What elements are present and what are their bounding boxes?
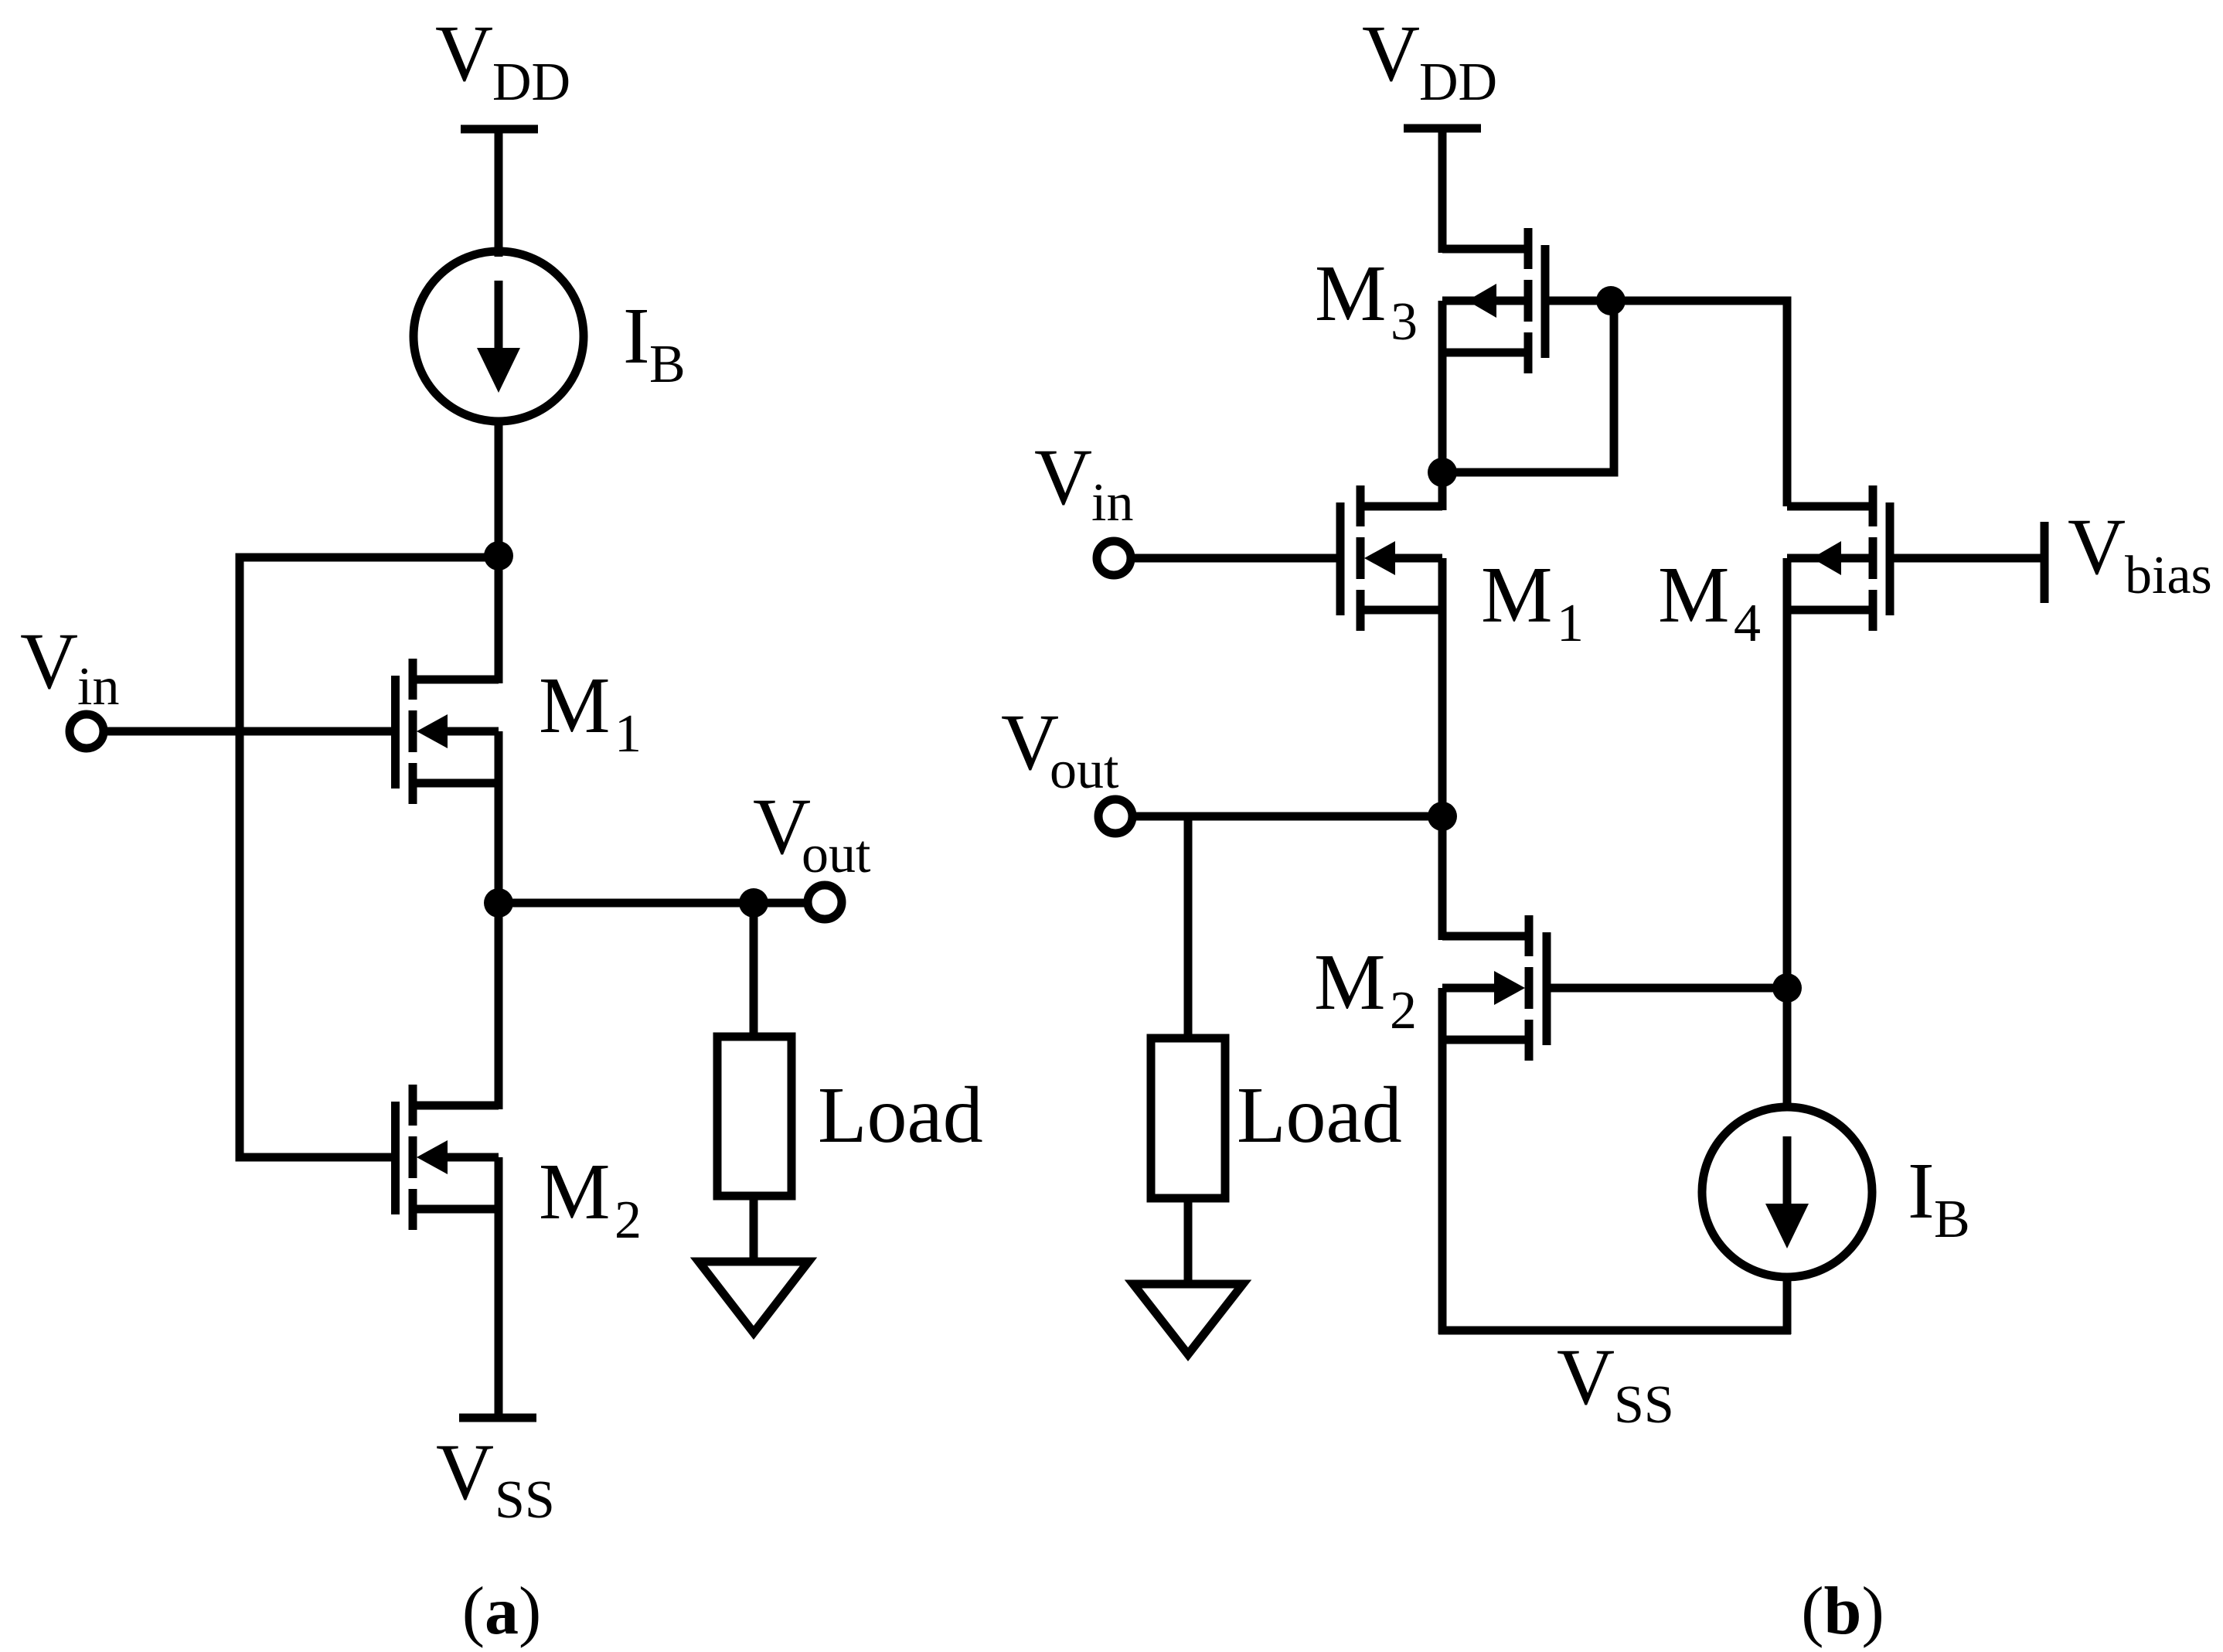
- svg-text:DD: DD: [1419, 53, 1497, 112]
- svg-text:M: M: [1314, 938, 1385, 1027]
- svg-text:SS: SS: [1614, 1375, 1674, 1435]
- power rail VSS (b): [1438, 1327, 1791, 1335]
- svg-text:I: I: [1908, 1146, 1935, 1235]
- terminal Vbias bar (b): [2041, 522, 2049, 603]
- wire M2 source to VSS rail (a): [495, 1157, 503, 1418]
- node Vout junction dot (a): [484, 888, 513, 918]
- svg-text:bias: bias: [2125, 546, 2212, 605]
- svg-text:Load: Load: [818, 1071, 983, 1160]
- wire node B to M4 drain (b): [1611, 301, 1787, 506]
- svg-text:M: M: [1658, 550, 1729, 639]
- svg-text:V: V: [435, 9, 493, 98]
- svg-text:V: V: [2068, 502, 2126, 591]
- node A junction dot (a): [484, 541, 513, 571]
- svg-text:M: M: [539, 1147, 610, 1236]
- svg-text:V: V: [1362, 9, 1420, 98]
- node B junction dot (b): [1596, 286, 1626, 315]
- wire IB to M1 drain (a): [495, 419, 503, 683]
- ground (a): [699, 1262, 809, 1333]
- svg-text:B: B: [649, 335, 686, 394]
- node Load junction dot (a): [739, 888, 768, 918]
- resistor Load (b): [1151, 1038, 1225, 1198]
- wire M2 gate to node D (b): [1551, 984, 1787, 993]
- current source IB (b): [1702, 1107, 1872, 1277]
- svg-text:(a): (a): [462, 1574, 542, 1649]
- svg-text:V: V: [1034, 433, 1092, 522]
- wire Vout node to M2 drain (b): [1438, 816, 1447, 940]
- wire M3 source to M1 drain (b): [1438, 301, 1447, 510]
- current source IB (a): [414, 251, 584, 421]
- terminal Vin (a): [70, 714, 104, 748]
- svg-text:M: M: [539, 661, 610, 750]
- wire Vout node to terminal (a): [499, 899, 806, 908]
- wire VDD rail to current source (a): [495, 129, 503, 257]
- svg-text:4: 4: [1734, 594, 1761, 653]
- wire node B to diode tie (b): [1442, 301, 1614, 472]
- node C junction dot (b): [1428, 458, 1457, 487]
- wire M4 gate to Vbias (b): [1894, 554, 2044, 563]
- svg-text:V: V: [1557, 1333, 1615, 1422]
- wire M4 source to IB (b): [1783, 558, 1792, 1110]
- wire Vin to M1 gate (a): [105, 727, 393, 736]
- transistor M1 (b): [1336, 485, 1443, 631]
- wire VDD rail to M3 drain (b): [1438, 128, 1447, 253]
- svg-text:M: M: [1481, 550, 1552, 639]
- svg-text:1: 1: [614, 704, 642, 764]
- wire M1 source to Vout node (a): [495, 731, 503, 903]
- svg-text:I: I: [623, 291, 650, 380]
- node Vout junction dot (b): [1428, 802, 1457, 831]
- svg-text:in: in: [1091, 473, 1133, 533]
- wire M1 source to Vout node (b): [1438, 558, 1447, 816]
- svg-text:B: B: [1934, 1190, 1970, 1249]
- wire M3 gate to node B (b): [1549, 297, 1611, 305]
- resistor Load (a): [717, 1037, 791, 1196]
- svg-text:3: 3: [1391, 292, 1418, 352]
- power rail VSS (a): [459, 1414, 536, 1422]
- svg-text:1: 1: [1557, 594, 1584, 653]
- svg-text:V: V: [20, 617, 78, 706]
- svg-text:2: 2: [614, 1190, 642, 1250]
- svg-text:out: out: [1050, 741, 1119, 800]
- wire Vin to M1 gate (b): [1132, 554, 1337, 563]
- power rail VDD (a): [461, 125, 538, 134]
- svg-text:DD: DD: [492, 53, 570, 112]
- wire Vout node to M2 drain (a): [495, 903, 503, 1109]
- node D junction dot (b): [1772, 973, 1802, 1003]
- transistor M2 (a): [391, 1085, 499, 1230]
- terminal Vin (b): [1097, 541, 1131, 575]
- transistor M2 (b): [1442, 915, 1551, 1061]
- wire node A to M2 gate (a): [240, 557, 499, 1157]
- wire M2 source to VSS rail (b): [1438, 988, 1447, 1334]
- ground (b): [1133, 1284, 1243, 1354]
- svg-text:SS: SS: [495, 1470, 555, 1530]
- wire Load to ground (a): [750, 1196, 758, 1262]
- svg-text:in: in: [77, 657, 119, 717]
- wire Vout node to Load (a): [750, 903, 758, 1037]
- wire Load to ground (b): [1184, 1198, 1193, 1284]
- transistor M4 (b): [1787, 485, 1894, 631]
- svg-text:M: M: [1315, 249, 1386, 338]
- svg-text:out: out: [802, 825, 871, 884]
- svg-text:(b): (b): [1801, 1574, 1884, 1649]
- wire IB to VSS rail (b): [1783, 1274, 1792, 1334]
- transistor M3 (b): [1442, 228, 1550, 373]
- terminal Vout (b): [1098, 799, 1132, 833]
- wire Vout to Load (b): [1184, 816, 1193, 1038]
- transistor M1 (a): [391, 659, 499, 804]
- power rail VDD (b): [1404, 124, 1481, 133]
- svg-text:Load: Load: [1237, 1071, 1402, 1160]
- svg-text:2: 2: [1390, 981, 1417, 1041]
- svg-text:V: V: [436, 1428, 494, 1517]
- wire Vout terminal to node (b): [1134, 812, 1442, 821]
- terminal Vout (a): [808, 885, 842, 919]
